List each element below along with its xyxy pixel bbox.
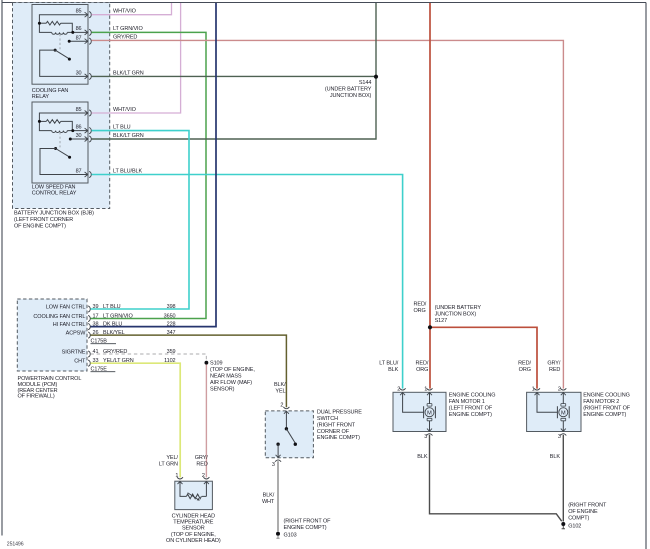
svg-text:2: 2 [202,473,205,479]
svg-text:BLK/: BLK/ [263,493,275,499]
svg-text:2: 2 [397,386,400,392]
svg-text:RED: RED [196,462,207,468]
svg-text:ENGINE COMPT): ENGINE COMPT) [284,525,327,531]
svg-text:OF ENGINE: OF ENGINE [568,509,598,515]
svg-text:OF FIREWALL): OF FIREWALL) [18,394,55,400]
svg-text:JUNCTION BOX): JUNCTION BOX) [435,312,477,318]
svg-text:87: 87 [76,169,82,175]
svg-text:LT BLU/BLK: LT BLU/BLK [113,168,142,174]
svg-text:1: 1 [532,386,535,392]
svg-text:G102: G102 [568,523,581,529]
svg-text:BLK: BLK [550,454,561,460]
svg-text:S109: S109 [210,360,222,366]
svg-text:SENSOR: SENSOR [182,526,205,532]
svg-text:FAN MOTOR 2: FAN MOTOR 2 [583,399,619,405]
svg-text:SWITCH: SWITCH [317,416,338,422]
svg-text:RED/: RED/ [416,361,429,367]
svg-text:BLK/: BLK/ [274,382,286,388]
svg-text:RED/: RED/ [414,302,427,308]
svg-text:YEL: YEL [275,389,285,395]
svg-text:TEMPERATURE: TEMPERATURE [173,520,213,526]
svg-text:WHT/VIO: WHT/VIO [113,107,137,113]
svg-text:RED: RED [549,367,560,373]
svg-text:FAN MOTOR 1: FAN MOTOR 1 [449,399,485,405]
svg-text:CYLINDER HEAD: CYLINDER HEAD [172,513,215,519]
svg-text:(RIGHT FRONT OF: (RIGHT FRONT OF [284,518,332,524]
svg-text:87: 87 [76,35,82,41]
svg-text:LT GRN/VIO: LT GRN/VIO [113,26,143,32]
svg-text:BLK/LT GRN: BLK/LT GRN [113,71,144,77]
svg-text:BLK/LT GRN: BLK/LT GRN [113,133,144,139]
svg-text:2: 2 [280,403,283,409]
svg-text:CHT: CHT [74,359,86,365]
svg-text:AIR FLOW (MAF): AIR FLOW (MAF) [210,380,252,386]
svg-text:(TOP OF ENGINE,: (TOP OF ENGINE, [210,367,255,373]
svg-text:LT BLU/: LT BLU/ [379,361,399,367]
svg-text:BATTERY JUNCTION BOX (BJB): BATTERY JUNCTION BOX (BJB) [14,211,94,217]
svg-text:ENGINE COMPT): ENGINE COMPT) [317,435,360,441]
svg-text:ON CYLINDER HEAD): ON CYLINDER HEAD) [166,538,221,544]
svg-text:WHT: WHT [262,499,275,505]
svg-text:SENSOR): SENSOR) [210,387,235,393]
svg-text:86: 86 [76,125,82,131]
svg-text:RELAY: RELAY [32,94,50,100]
svg-text:ORG: ORG [414,308,426,314]
svg-text:G103: G103 [284,533,297,539]
svg-text:30: 30 [76,70,82,76]
svg-text:CONTROL RELAY: CONTROL RELAY [32,191,77,197]
svg-text:ENGINE COOLING: ENGINE COOLING [449,392,496,398]
svg-text:YEL/: YEL/ [166,455,178,461]
svg-text:ORG: ORG [519,367,531,373]
svg-text:(UNDER BATTERY: (UNDER BATTERY [435,305,482,311]
svg-text:251496: 251496 [7,541,24,547]
svg-text:WHT/VIO: WHT/VIO [113,8,137,14]
svg-text:ENGINE COMPT): ENGINE COMPT) [449,412,492,418]
svg-text:JUNCTION BOX): JUNCTION BOX) [330,93,372,99]
svg-text:(RIGHT FRONT: (RIGHT FRONT [317,422,356,428]
svg-text:ORG: ORG [416,367,428,373]
svg-text:3: 3 [558,434,561,440]
svg-text:DUAL PRESSURE: DUAL PRESSURE [317,410,362,416]
svg-text:S127: S127 [435,318,447,324]
svg-text:GRY/: GRY/ [547,361,561,367]
svg-text:LT GRN: LT GRN [159,462,178,468]
svg-text:NEAR MASS: NEAR MASS [210,374,242,380]
svg-text:COMPT): COMPT) [568,516,589,522]
svg-text:(RIGHT FRONT: (RIGHT FRONT [568,503,607,509]
svg-text:S144: S144 [359,80,371,86]
svg-text:1: 1 [424,386,427,392]
svg-text:(LEFT FRONT CORNER: (LEFT FRONT CORNER [14,217,73,223]
svg-text:COOLING FAN CTRL: COOLING FAN CTRL [33,314,85,320]
svg-text:2: 2 [558,386,561,392]
svg-text:BLK: BLK [388,367,399,373]
svg-text:(UNDER BATTERY: (UNDER BATTERY [325,87,372,93]
svg-text:85: 85 [76,8,82,14]
svg-text:OF ENGINE COMPT): OF ENGINE COMPT) [14,224,66,230]
svg-text:M: M [561,410,566,416]
svg-text:LOW FAN CTRL: LOW FAN CTRL [46,304,85,310]
svg-text:M: M [427,410,432,416]
svg-text:ENGINE COMPT): ENGINE COMPT) [583,412,626,418]
svg-text:ACPSW: ACPSW [66,331,87,337]
svg-text:CORNER OF: CORNER OF [317,429,350,435]
svg-text:3: 3 [424,434,427,440]
svg-text:3: 3 [272,462,275,468]
svg-text:GRY/RED: GRY/RED [113,35,137,41]
svg-text:30: 30 [76,133,82,139]
svg-text:GRY/: GRY/ [195,455,209,461]
svg-text:ENGINE COOLING: ENGINE COOLING [583,392,630,398]
svg-text:LOW SPEED FAN: LOW SPEED FAN [32,184,76,190]
svg-text:SIGRTNE: SIGRTNE [62,349,86,355]
svg-text:1: 1 [175,473,178,479]
svg-text:LT BLU: LT BLU [113,124,131,130]
svg-text:(LEFT FRONT OF: (LEFT FRONT OF [449,405,493,411]
svg-text:COOLING FAN: COOLING FAN [32,88,69,94]
svg-text:(TOP OF ENGINE,: (TOP OF ENGINE, [171,532,216,538]
svg-text:86: 86 [76,26,82,32]
svg-text:85: 85 [76,107,82,113]
svg-text:HI FAN CTRL: HI FAN CTRL [53,322,86,328]
svg-text:RED/: RED/ [518,361,531,367]
svg-text:BLK: BLK [417,454,428,460]
svg-text:(RIGHT FRONT OF: (RIGHT FRONT OF [583,405,631,411]
